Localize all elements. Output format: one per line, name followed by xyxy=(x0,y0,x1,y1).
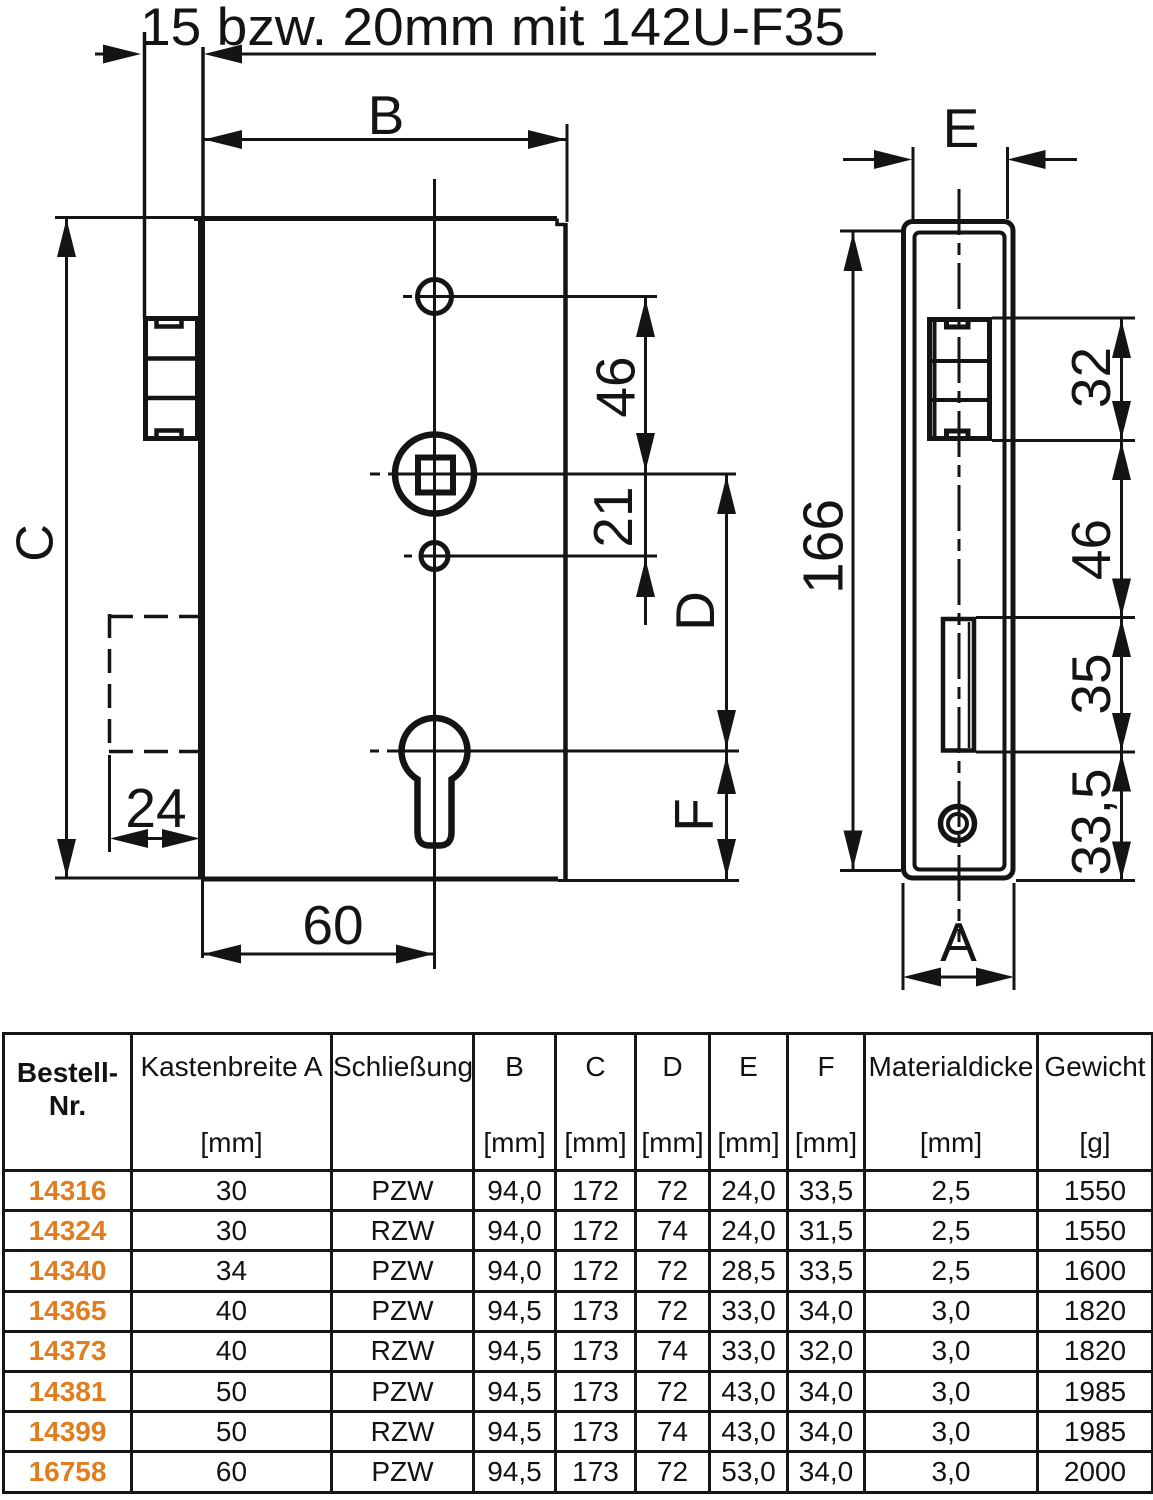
extension line latch face xyxy=(143,32,147,318)
svg-text:35: 35 xyxy=(1060,653,1122,714)
profile cylinder centerline xyxy=(370,750,379,753)
follower centerline xyxy=(370,473,380,476)
top hole centerline xyxy=(403,295,412,298)
extension line 166 top xyxy=(840,230,901,233)
deadbolt hidden outline (dashed) left xyxy=(108,614,112,753)
dimension line A xyxy=(935,976,982,979)
profile cylinder hole (keyhole outline) xyxy=(402,718,468,845)
extension line E left xyxy=(912,147,915,219)
svg-text:46: 46 xyxy=(585,356,647,417)
svg-text:46: 46 xyxy=(1060,519,1122,580)
lock case bottom edge xyxy=(202,877,558,882)
deadbolt hidden outline (dashed) bottom xyxy=(109,750,198,754)
extension line 24 left xyxy=(108,755,111,852)
extension line 33,5 bottom xyxy=(1016,879,1135,882)
dimension line B xyxy=(203,138,567,141)
screw hole inner xyxy=(948,814,967,833)
extension line 35 top xyxy=(976,616,1135,619)
dimension chain 46/21 line xyxy=(644,297,647,625)
faceplate inner outline (side view) xyxy=(915,233,1005,870)
svg-text:60: 60 xyxy=(302,894,363,956)
lock case top right corner step xyxy=(557,219,566,225)
latch cutout divider lower xyxy=(927,398,990,402)
latch cutout inner left line xyxy=(933,322,937,437)
extension line 166 bottom xyxy=(840,869,901,872)
latch bolt band line upper xyxy=(146,356,198,361)
specification table xyxy=(2,1032,1153,1494)
small hole centerline xyxy=(404,555,412,558)
top hole xyxy=(418,280,452,314)
lock case bottom edge extension to C xyxy=(55,877,202,880)
dimension chain right side line xyxy=(1120,318,1123,881)
dimension line 15: right segment with arrow xyxy=(204,45,242,64)
svg-text:F: F xyxy=(663,798,725,832)
latch cutout top notch xyxy=(947,317,969,327)
latch bolt outline xyxy=(146,319,198,439)
deadbolt hidden outline (dashed) top xyxy=(109,615,198,619)
faceplate centerline (dash-dot) xyxy=(958,189,961,942)
svg-text:24: 24 xyxy=(125,777,186,839)
dimension line 15: left segment with arrow xyxy=(95,53,106,56)
svg-text:D: D xyxy=(664,591,726,631)
follower square spindle hole xyxy=(418,458,453,493)
svg-text:B: B xyxy=(368,84,405,146)
dimension chain D/F line xyxy=(725,474,728,879)
latch bolt band line lower xyxy=(146,396,198,401)
latch bolt top notch xyxy=(157,319,182,327)
faceplate edge (front view) xyxy=(198,216,205,879)
extension line E right xyxy=(1006,147,1009,219)
latch bolt bottom notch xyxy=(157,431,182,439)
svg-text:15 bzw. 20mm mit 142U-F35: 15 bzw. 20mm mit 142U-F35 xyxy=(140,0,845,57)
faceplate extension below case xyxy=(201,879,204,958)
extension line 32 top xyxy=(992,317,1135,320)
lock slot inner line xyxy=(968,622,971,748)
svg-text:32: 32 xyxy=(1060,347,1122,408)
lock slot in faceplate xyxy=(943,619,974,751)
latch cutout divider upper xyxy=(927,359,990,363)
extension line A left xyxy=(902,883,905,990)
svg-text:C: C xyxy=(7,524,65,562)
extension line 35 bottom / 33,5 top xyxy=(976,751,1135,754)
svg-text:E: E xyxy=(943,97,980,159)
vertical centerline front view xyxy=(433,179,436,969)
dimension line C xyxy=(65,219,68,877)
lock case top edge xyxy=(194,216,557,221)
small hole below follower xyxy=(421,543,448,570)
follower nut circle xyxy=(395,435,474,514)
screw hole outer xyxy=(941,807,975,841)
latch cutout outline (side view) xyxy=(930,320,990,439)
svg-text:21: 21 xyxy=(582,486,644,547)
dimension line 60 xyxy=(202,953,435,956)
dimension line 166 xyxy=(852,231,855,871)
lock case right edge xyxy=(563,223,568,881)
latch cutout bottom notch xyxy=(947,431,969,441)
dimension line 24 xyxy=(140,837,168,840)
lock case top edge extension to C xyxy=(55,216,196,219)
faceplate outer outline (side view) xyxy=(904,222,1014,879)
svg-text:166: 166 xyxy=(792,499,856,594)
lock case bottom edge extension to F xyxy=(558,879,739,882)
extension line A right xyxy=(1013,883,1016,990)
extension line faceplate top xyxy=(201,47,205,216)
dimension line E xyxy=(843,158,878,161)
extension line B right xyxy=(566,124,569,222)
extension line 32 bottom / 46 top xyxy=(992,439,1135,442)
svg-text:33,5: 33,5 xyxy=(1060,768,1122,875)
svg-text:A: A xyxy=(940,911,977,973)
